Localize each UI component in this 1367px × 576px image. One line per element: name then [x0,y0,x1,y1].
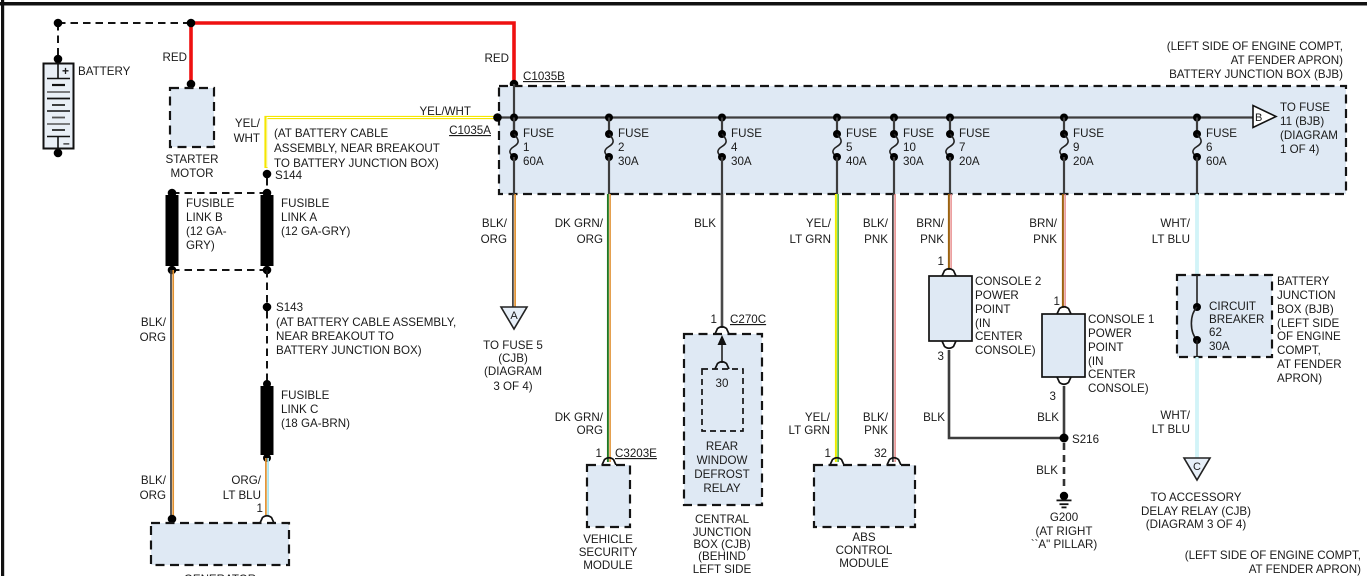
svg-text:1: 1 [1054,295,1060,308]
svg-text:STARTER: STARTER [165,153,218,166]
svg-text:7: 7 [959,141,965,154]
svg-text:(CJB): (CJB) [498,352,528,365]
svg-text:(12 GA-GRY): (12 GA-GRY) [281,225,351,238]
svg-text:ORG/: ORG/ [231,474,261,487]
svg-text:RED: RED [485,52,509,65]
svg-text:BREAKER: BREAKER [1209,313,1264,326]
svg-text:AT FENDER APRON): AT FENDER APRON) [1249,563,1361,576]
svg-text:1: 1 [523,141,529,154]
svg-text:C3203E: C3203E [615,447,657,460]
svg-text:+: + [62,64,69,78]
svg-text:FUSE: FUSE [1073,127,1104,140]
svg-text:YEL/WHT: YEL/WHT [419,105,471,118]
svg-text:10: 10 [903,141,916,154]
svg-text:AT FENDER: AT FENDER [1277,358,1342,371]
svg-text:(DIAGRAM: (DIAGRAM [484,365,542,378]
svg-text:FUSIBLE: FUSIBLE [186,197,235,210]
svg-text:LT GRN: LT GRN [790,233,831,246]
svg-text:(12 GA-: (12 GA- [186,225,227,238]
svg-text:CENTRAL: CENTRAL [695,513,750,526]
svg-text:FUSE: FUSE [523,127,554,140]
svg-text:(LEFT SIDE OF ENGINE COMPT,: (LEFT SIDE OF ENGINE COMPT, [1185,549,1361,562]
svg-text:VEHICLE: VEHICLE [583,533,633,546]
svg-text:BLK/: BLK/ [863,217,889,230]
svg-text:5: 5 [846,141,852,154]
svg-text:(IN: (IN [1088,355,1103,368]
svg-text:BOX (BJB): BOX (BJB) [1277,303,1334,316]
svg-text:20A: 20A [959,155,980,168]
svg-text:30A: 30A [618,155,639,168]
svg-text:C1035B: C1035B [523,70,565,83]
svg-text:32: 32 [874,447,887,460]
svg-text:YEL/: YEL/ [806,217,832,230]
svg-text:PNK: PNK [864,233,888,246]
svg-text:S216: S216 [1072,433,1099,446]
svg-text:ORG: ORG [140,331,166,344]
svg-text:(DIAGRAM: (DIAGRAM [1280,129,1338,142]
svg-text:ASSEMBLY, NEAR BREAKOUT: ASSEMBLY, NEAR BREAKOUT [274,142,440,155]
svg-text:BLK/: BLK/ [482,217,508,230]
svg-text:FUSE: FUSE [618,127,649,140]
svg-text:WHT: WHT [234,132,260,145]
svg-text:TO FUSE: TO FUSE [1280,101,1330,114]
svg-text:9: 9 [1073,141,1079,154]
svg-text:BLK/: BLK/ [141,474,167,487]
svg-text:YEL/: YEL/ [235,117,261,130]
svg-text:POWER: POWER [975,289,1019,302]
svg-text:CENTER: CENTER [1088,368,1136,381]
svg-text:DK GRN/: DK GRN/ [555,217,604,230]
svg-text:(BEHIND: (BEHIND [698,550,746,563]
svg-text:30A: 30A [731,155,752,168]
svg-text:CONTROL: CONTROL [836,544,893,557]
svg-text:BATTERY: BATTERY [78,65,131,78]
svg-text:4: 4 [731,141,738,154]
svg-text:DK GRN/: DK GRN/ [555,411,604,424]
svg-text:(18 GA-BRN): (18 GA-BRN) [281,417,350,430]
svg-text:CONSOLE): CONSOLE) [975,344,1036,357]
svg-text:30: 30 [716,377,729,390]
svg-text:BRN/: BRN/ [916,217,944,230]
svg-text:2: 2 [618,141,624,154]
svg-text:BLK: BLK [923,411,945,424]
svg-text:FUSE: FUSE [1206,127,1237,140]
svg-text:1: 1 [596,447,602,460]
svg-text:3: 3 [938,350,944,363]
svg-text:(AT BATTERY CABLE ASSEMBLY,: (AT BATTERY CABLE ASSEMBLY, [276,316,456,329]
svg-text:LT BLU: LT BLU [223,489,261,502]
svg-text:POWER: POWER [1088,327,1132,340]
svg-text:MODULE: MODULE [583,559,633,572]
svg-text:(DIAGRAM 3 OF 4): (DIAGRAM 3 OF 4) [1146,518,1247,531]
svg-text:1 OF 4): 1 OF 4) [1280,143,1319,156]
svg-text:–: – [63,136,70,150]
svg-text:6: 6 [1206,141,1212,154]
svg-text:MODULE: MODULE [839,557,889,570]
svg-text:BLK: BLK [694,217,716,230]
svg-text:BLK: BLK [1037,411,1059,424]
svg-text:PNK: PNK [920,233,944,246]
svg-text:G200: G200 [1050,511,1078,524]
svg-text:ORG: ORG [140,489,166,502]
svg-text:PNK: PNK [864,424,888,437]
svg-text:RELAY: RELAY [703,482,740,495]
svg-text:S143: S143 [276,301,303,314]
svg-text:APRON): APRON) [1277,372,1322,385]
svg-text:(AT BATTERY CABLE: (AT BATTERY CABLE [274,127,389,140]
svg-text:OF ENGINE: OF ENGINE [1277,330,1341,343]
svg-text:TO FUSE 5: TO FUSE 5 [483,339,543,352]
svg-text:MOTOR: MOTOR [171,167,214,180]
svg-text:CONSOLE): CONSOLE) [1088,382,1149,395]
svg-text:ORG: ORG [481,233,507,246]
svg-text:60A: 60A [523,155,544,168]
svg-text:LEFT SIDE: LEFT SIDE [693,563,752,576]
svg-text:RED: RED [163,51,187,64]
svg-text:GRY): GRY) [186,239,215,252]
svg-text:FUSE: FUSE [846,127,877,140]
svg-text:BATTERY: BATTERY [1277,275,1330,288]
svg-text:ORG: ORG [577,424,603,437]
svg-text:(AT RIGHT: (AT RIGHT [1036,525,1093,538]
svg-text:11 (BJB): 11 (BJB) [1280,115,1324,128]
svg-text:DELAY RELAY (CJB): DELAY RELAY (CJB) [1141,505,1251,518]
svg-text:CONSOLE 1: CONSOLE 1 [1088,313,1154,326]
svg-text:BATTERY JUNCTION BOX): BATTERY JUNCTION BOX) [276,344,422,357]
svg-text:3 OF 4): 3 OF 4) [493,380,532,393]
svg-text:POINT: POINT [975,303,1010,316]
svg-text:DEFROST: DEFROST [694,468,749,481]
svg-text:(IN: (IN [975,317,990,330]
svg-text:1: 1 [711,313,717,326]
svg-text:(LEFT SIDE OF ENGINE COMPT,: (LEFT SIDE OF ENGINE COMPT, [1167,40,1343,53]
svg-text:BLK/: BLK/ [141,316,167,329]
svg-text:JUNCTION: JUNCTION [1277,289,1336,302]
svg-text:BLK: BLK [1036,464,1058,477]
svg-text:WHT/: WHT/ [1160,217,1190,230]
svg-text:ABS: ABS [852,531,875,544]
svg-text:A: A [510,310,518,322]
svg-text:NEAR BREAKOUT TO: NEAR BREAKOUT TO [276,330,394,343]
svg-text:CIRCUIT: CIRCUIT [1209,300,1256,313]
svg-text:ORG: ORG [577,233,603,246]
svg-text:LINK A: LINK A [281,211,317,224]
svg-text:FUSE: FUSE [903,127,934,140]
svg-text:FUSE: FUSE [959,127,990,140]
svg-text:SECURITY: SECURITY [579,546,638,559]
svg-text:30A: 30A [903,155,924,168]
svg-text:WINDOW: WINDOW [697,454,748,467]
svg-text:3: 3 [1050,390,1056,403]
svg-text:30A: 30A [1209,340,1230,353]
svg-text:LINK C: LINK C [281,403,318,416]
svg-text:PNK: PNK [1033,233,1057,246]
svg-text:REAR: REAR [706,440,738,453]
svg-text:1: 1 [257,502,263,515]
svg-text:YEL/: YEL/ [805,411,831,424]
svg-text:BLK/: BLK/ [863,411,889,424]
svg-text:C270C: C270C [730,313,766,326]
svg-text:WHT/: WHT/ [1160,409,1190,422]
svg-text:LINK B: LINK B [186,211,223,224]
svg-text:BATTERY JUNCTION BOX (BJB): BATTERY JUNCTION BOX (BJB) [1169,68,1343,81]
svg-text:CENTER: CENTER [975,330,1023,343]
svg-text:COMPT,: COMPT, [1277,344,1321,357]
svg-text:20A: 20A [1073,155,1094,168]
svg-text:POINT: POINT [1088,341,1123,354]
svg-text:40A: 40A [846,155,867,168]
svg-text:``A" PILLAR): ``A" PILLAR) [1031,538,1098,551]
svg-text:AT FENDER APRON): AT FENDER APRON) [1231,54,1343,67]
svg-text:LT BLU: LT BLU [1152,423,1190,436]
svg-text:C: C [1193,461,1201,473]
svg-text:TO ACCESSORY: TO ACCESSORY [1150,491,1241,504]
svg-text:(LEFT SIDE: (LEFT SIDE [1277,317,1340,330]
svg-text:1: 1 [938,255,944,268]
svg-text:1: 1 [825,447,831,460]
svg-text:LT GRN: LT GRN [789,424,830,437]
svg-text:FUSIBLE: FUSIBLE [281,197,330,210]
svg-text:60A: 60A [1206,155,1227,168]
svg-text:FUSE: FUSE [731,127,762,140]
svg-text:S144: S144 [275,169,303,182]
svg-text:C1035A: C1035A [449,124,491,137]
svg-text:62: 62 [1209,326,1222,339]
svg-text:BRN/: BRN/ [1029,217,1057,230]
svg-text:B: B [1255,112,1262,124]
svg-text:LT BLU: LT BLU [1152,233,1190,246]
svg-text:CONSOLE 2: CONSOLE 2 [975,275,1041,288]
svg-text:FUSIBLE: FUSIBLE [281,389,330,402]
